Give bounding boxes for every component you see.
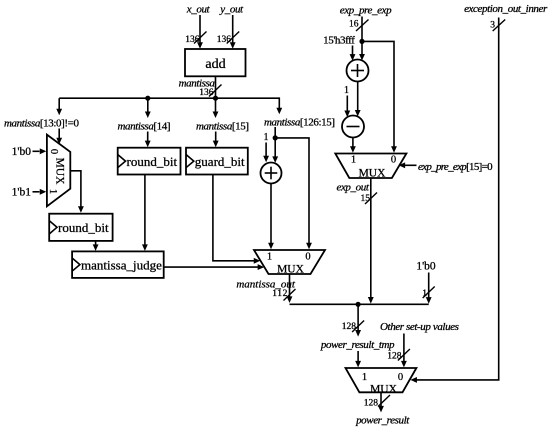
svg-text:0: 0 (305, 252, 310, 263)
subtractor circle (342, 116, 364, 138)
wire subtractor output to right MUX input 1 (350, 138, 356, 153)
bus width 16 tick on exp_pre_exp (349, 20, 369, 32)
bus width 128 tick on other set-up values (387, 349, 410, 362)
svg-text:round_bit: round_bit (58, 220, 109, 235)
wire select into left MUX (56, 129, 62, 145)
wire mantissa[15] into guard_bit (213, 132, 219, 148)
wire select exp_pre_exp[15]=0 into right MUX (399, 162, 417, 168)
wire exp_out down to concat bus (368, 178, 374, 304)
junction on exp_pre_exp (359, 39, 364, 44)
svg-text:1: 1 (267, 252, 272, 263)
wire bus drop to mantissa[13:0] label (56, 98, 62, 115)
svg-text:15'h3fff: 15'h3fff (323, 35, 355, 47)
junction on concat bus (356, 302, 361, 307)
wire 1'b0 into left MUX input 0 (33, 148, 47, 154)
wire mantissa_judge output to middle MUX select (164, 264, 265, 270)
svg-text:136: 136 (199, 88, 214, 98)
bus width 136 tick on y_out (217, 32, 239, 46)
svg-text:power_result: power_result (355, 415, 410, 427)
svg-text:15: 15 (361, 194, 371, 204)
block mantissa_judge (72, 251, 164, 278)
svg-text:128: 128 (387, 352, 402, 362)
wire exception_out_inner to bottom MUX select (410, 18, 498, 383)
svg-text:1: 1 (362, 372, 367, 383)
wire mantissa horizontal bus (59, 97, 279, 99)
bus width 3 tick on exception_out_inner (490, 20, 505, 32)
wire middle MUX output down (287, 274, 293, 303)
wire 1'b1 into left MUX input 1 (33, 189, 47, 195)
svg-text:MUX: MUX (53, 158, 65, 186)
svg-text:exp_pre_exp: exp_pre_exp (340, 5, 392, 17)
adder circle middle (261, 163, 282, 184)
wire 1'b0 down to concat bus (426, 273, 432, 304)
svg-text:exp_pre_exp[15]=0: exp_pre_exp[15]=0 (418, 161, 493, 173)
svg-text:MUX: MUX (277, 264, 305, 276)
wire mantissa[14] into round_bit (145, 132, 151, 148)
wire exp_pre_exp branch to right MUX input 0 (362, 41, 397, 152)
svg-text:1: 1 (422, 289, 427, 299)
svg-text:MUX: MUX (359, 168, 387, 180)
wire right adder output to subtractor (355, 82, 361, 117)
svg-text:x_out: x_out (186, 4, 211, 16)
block round_bit (middle) (118, 148, 181, 175)
svg-text:1: 1 (264, 132, 269, 143)
wire exp_pre_exp down to adder (359, 17, 365, 61)
wire power_result output (378, 392, 384, 412)
svg-text:128: 128 (364, 399, 379, 409)
wire mantissa[126:15] down (272, 127, 278, 163)
block round_bit (left) (49, 214, 112, 241)
wire power_result_tmp into bottom MUX input 1 (355, 304, 361, 367)
multiplexer bottom MUX (346, 368, 417, 396)
wire branch to middle MUX input 0 (275, 138, 312, 249)
svg-text:power_result_tmp: power_result_tmp (320, 339, 395, 351)
svg-text:mantissa[14]: mantissa[14] (118, 121, 171, 133)
svg-text:0: 0 (48, 149, 59, 154)
svg-text:16: 16 (349, 20, 359, 30)
svg-text:exception_out_inner: exception_out_inner (464, 3, 548, 15)
svg-text:mantissa_judge: mantissa_judge (81, 258, 162, 273)
svg-text:mantissa[13:0]!=0: mantissa[13:0]!=0 (4, 118, 79, 130)
svg-text:mantissa[15]: mantissa[15] (196, 121, 249, 133)
adder circle right (347, 60, 369, 82)
bus width 15 tick on exp_out (361, 193, 378, 205)
junction on mantissa[126:15] (273, 135, 278, 140)
svg-text:add: add (205, 57, 225, 72)
wire bus drop to mantissa[14] label (145, 98, 151, 118)
wire 15'h3fff into adder (350, 46, 356, 61)
svg-text:exp_out: exp_out (336, 182, 369, 194)
svg-text:112: 112 (272, 289, 288, 299)
wire constant 1 into subtractor (344, 96, 350, 118)
bus width 136 tick on mantissa (199, 85, 221, 99)
wire bus corner drop to mantissa[126:15] label (276, 97, 282, 114)
bus width 128 tick on power_result_tmp (342, 321, 364, 333)
adder block add (185, 49, 246, 76)
wire left MUX output to round_bit (70, 171, 84, 213)
wire other set-up values into bottom MUX input 0 (401, 334, 407, 368)
multiplexer middle MUX (254, 250, 325, 276)
svg-text:136: 136 (185, 35, 200, 45)
svg-text:128: 128 (342, 322, 357, 332)
bus width 136 tick on x_out (185, 32, 206, 46)
svg-text:1'b0: 1'b0 (12, 146, 32, 158)
multiplexer right MUX (335, 154, 406, 180)
svg-text:MUX: MUX (370, 384, 398, 396)
svg-text:guard_bit: guard_bit (195, 154, 245, 169)
wire bus drop to mantissa[15] label (213, 98, 219, 118)
wire round_bit left output to mantissa_judge (93, 241, 99, 251)
bus width 112 tick on mantissa_out (272, 289, 295, 301)
wire constant 1 into middle adder (263, 143, 269, 163)
svg-text:1'b1: 1'b1 (12, 187, 32, 199)
wire y_out to add (230, 15, 236, 49)
junction on bus at mantissa[14] branch (145, 96, 150, 101)
bus width 1 tick on 1'b0 (422, 287, 434, 300)
wire concatenation bus horizontal (290, 303, 429, 305)
multiplexer left MUX (rotated) (47, 135, 70, 207)
svg-text:Other set-up values: Other set-up values (380, 321, 459, 333)
wire add output to bus (215, 76, 217, 98)
block guard_bit (186, 148, 248, 175)
wire guard_bit output to middle MUX select (213, 175, 260, 264)
svg-text:136: 136 (217, 35, 232, 45)
wire x_out to add (197, 15, 203, 49)
svg-text:1: 1 (344, 85, 349, 96)
svg-text:y_out: y_out (219, 4, 244, 16)
svg-text:3: 3 (490, 21, 495, 31)
junction on bus at add output (213, 96, 218, 101)
svg-text:0: 0 (398, 372, 403, 383)
wire round_bit middle output to mantissa_judge (142, 175, 148, 251)
bus width 128 tick on power_result (364, 395, 390, 409)
svg-text:round_bit: round_bit (127, 154, 178, 169)
svg-text:1: 1 (47, 189, 58, 194)
svg-text:mantissa[126:15]: mantissa[126:15] (264, 117, 335, 129)
svg-text:1'b0: 1'b0 (416, 261, 436, 273)
svg-text:1: 1 (351, 155, 356, 166)
svg-text:0: 0 (391, 155, 396, 166)
wire middle adder output to middle MUX input 1 (268, 184, 274, 250)
